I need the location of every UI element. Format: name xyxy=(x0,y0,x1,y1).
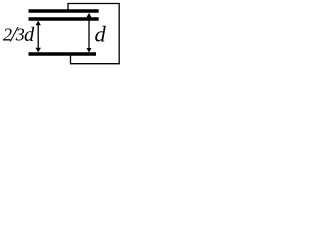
wire xyxy=(68,4,119,64)
top plate position 2 xyxy=(29,17,99,20)
arrow d shaft xyxy=(88,15,90,50)
arrow 2/3d shaft xyxy=(37,23,39,50)
arrow d down head xyxy=(87,48,92,53)
top plate position 1 xyxy=(29,9,99,13)
svg-text:d: d xyxy=(24,24,35,46)
arrow 2/3d down head xyxy=(36,48,41,53)
bottom plate xyxy=(29,52,97,55)
svg-text:d: d xyxy=(95,22,107,47)
arrow 2/3d up head xyxy=(36,21,41,26)
arrow d up head xyxy=(87,13,92,18)
